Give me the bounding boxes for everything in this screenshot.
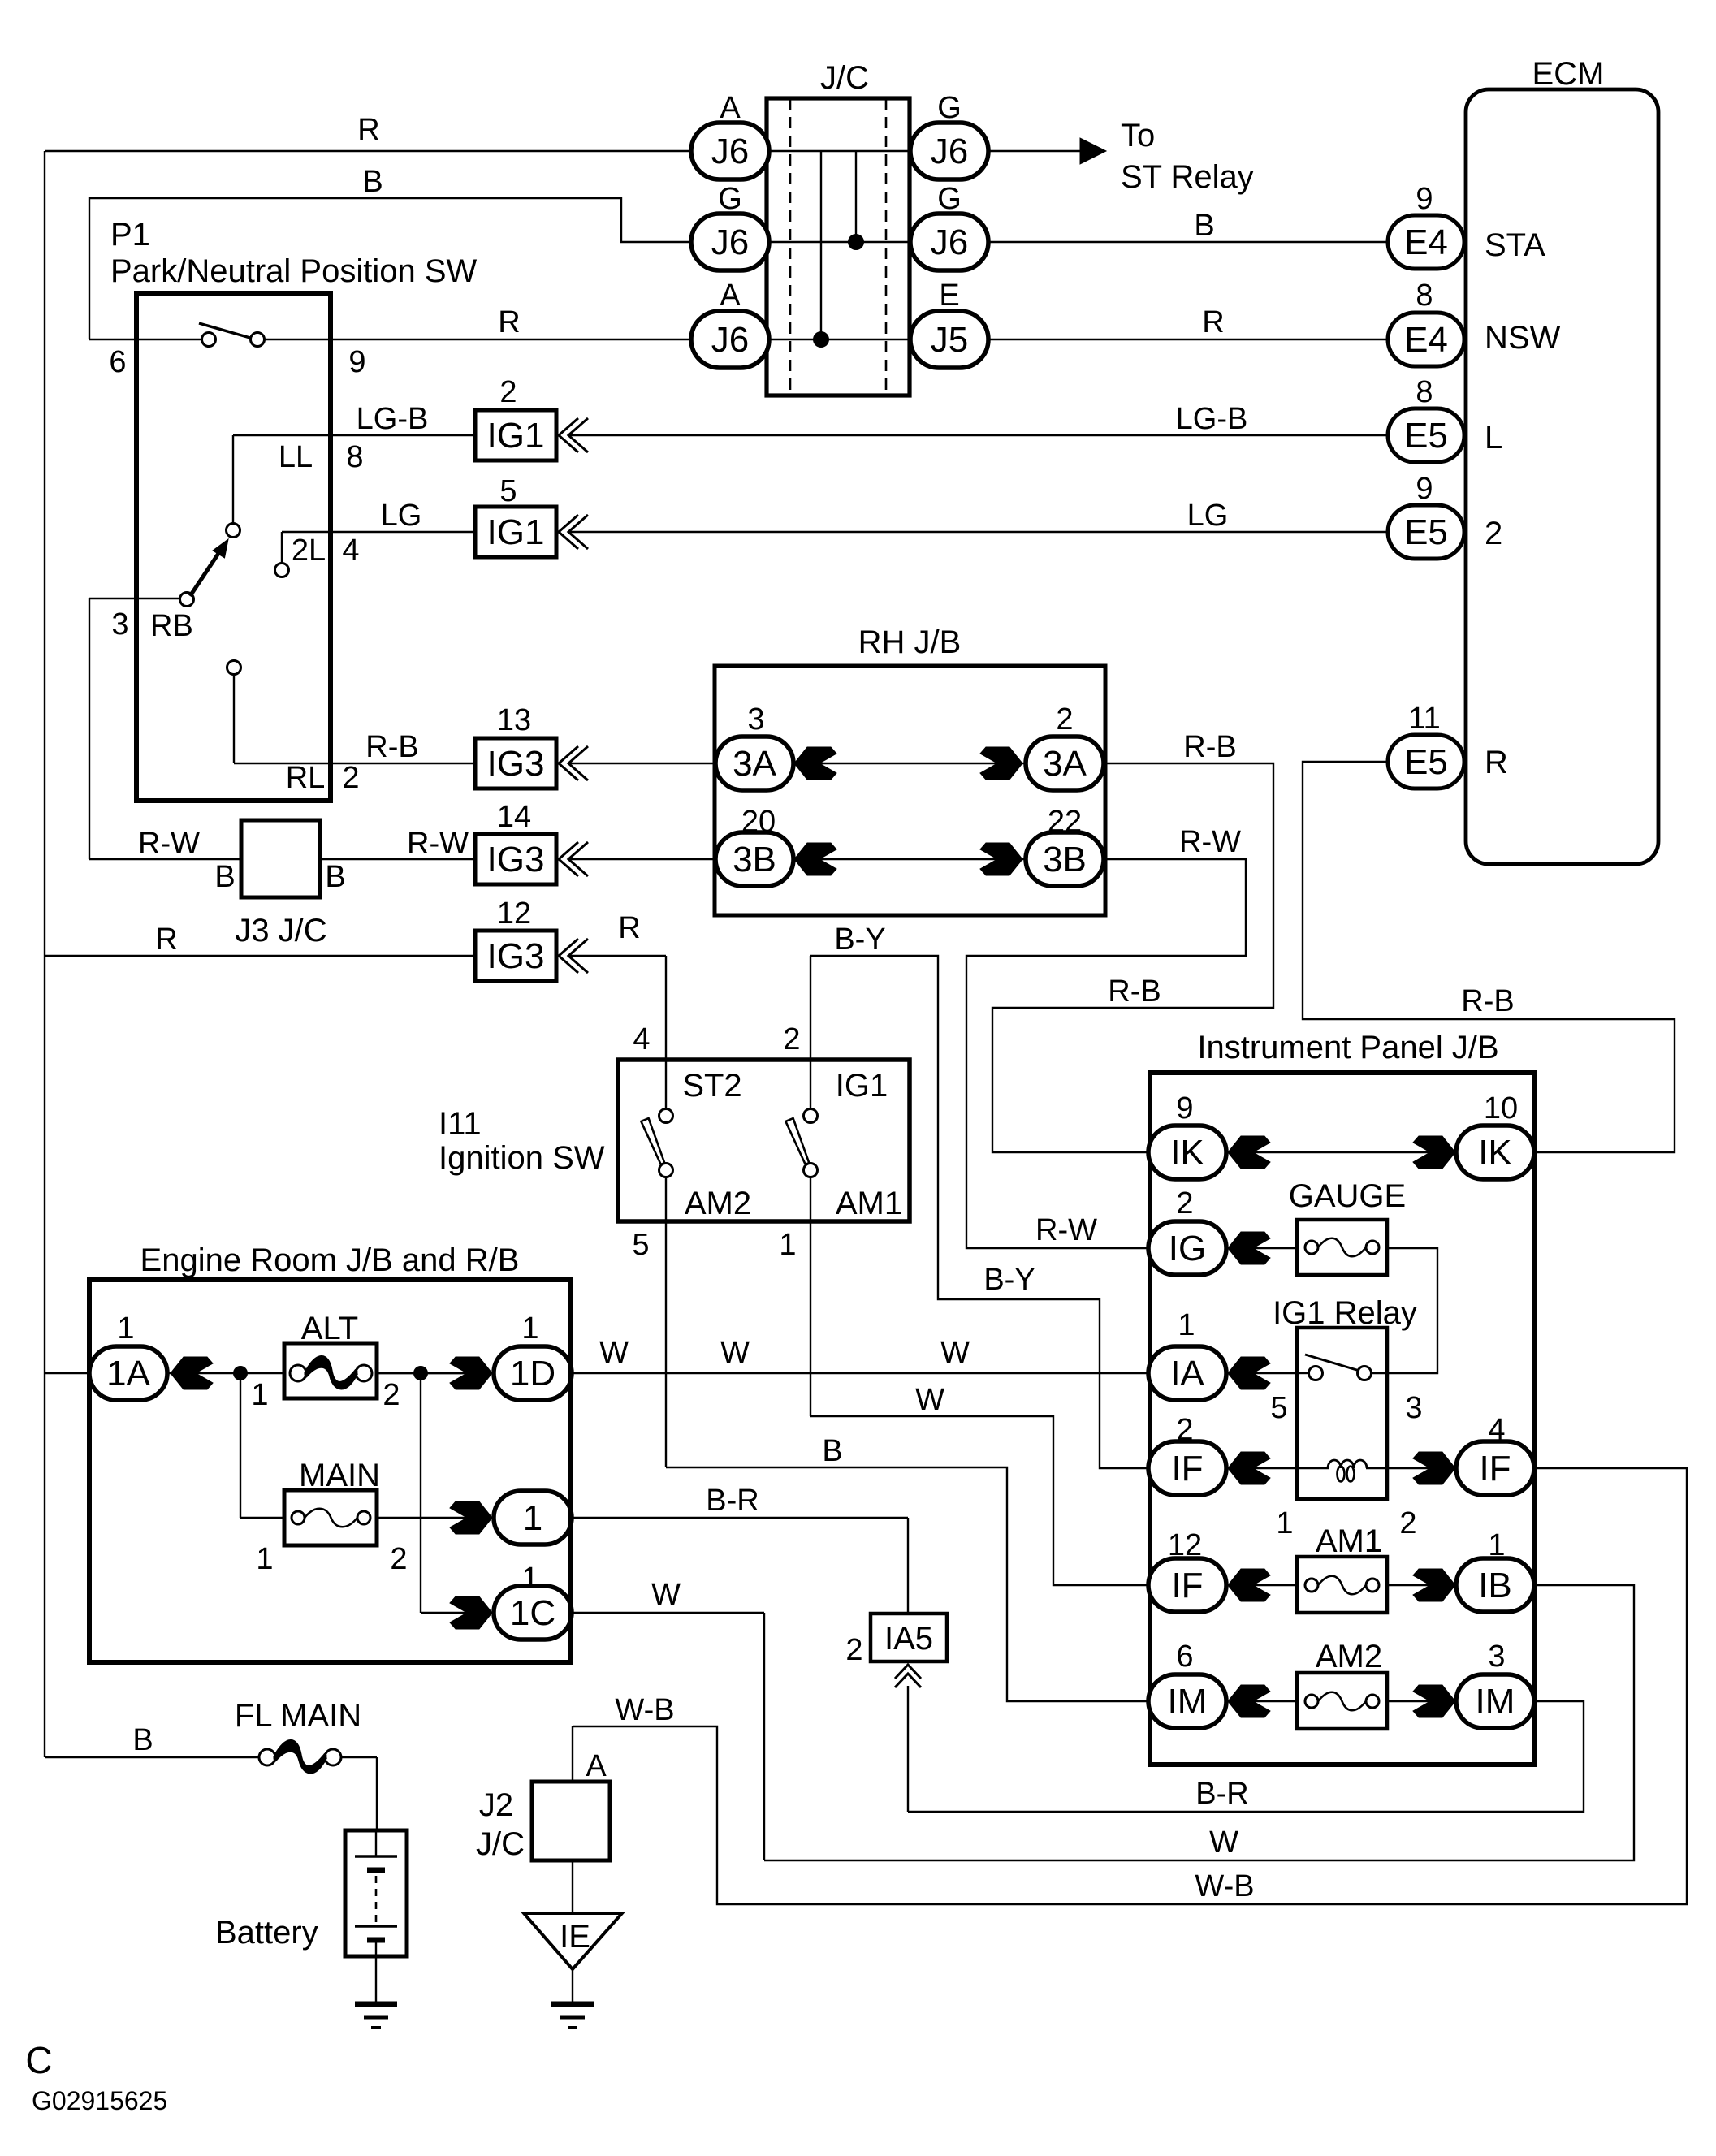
svg-text:2: 2 [390,1542,407,1576]
svg-text:12: 12 [1168,1528,1202,1562]
svg-text:5: 5 [632,1228,649,1262]
svg-text:6: 6 [109,345,126,379]
svg-text:W: W [651,1578,681,1612]
svg-text:J6: J6 [711,132,749,171]
svg-text:E5: E5 [1404,416,1448,456]
svg-text:1A: 1A [106,1354,150,1393]
svg-text:C: C [25,2039,52,2081]
svg-text:2: 2 [499,375,517,409]
svg-text:LG: LG [381,499,422,533]
svg-text:W: W [720,1336,750,1370]
svg-text:1C: 1C [510,1593,555,1633]
svg-text:LG: LG [1187,499,1229,533]
svg-text:1: 1 [521,1311,538,1346]
svg-text:I11: I11 [439,1106,482,1142]
svg-text:B: B [362,165,383,199]
svg-text:J2: J2 [479,1787,513,1823]
svg-text:AM1: AM1 [836,1186,902,1221]
svg-text:STA: STA [1485,227,1545,263]
svg-text:IF: IF [1171,1449,1203,1488]
svg-text:IG1: IG1 [487,512,545,552]
svg-text:IG3: IG3 [487,840,545,879]
svg-text:B: B [822,1434,842,1468]
svg-text:IA: IA [1170,1354,1204,1393]
svg-text:G: G [718,182,742,216]
svg-text:AM2: AM2 [1316,1639,1382,1674]
svg-text:IG1: IG1 [487,416,545,456]
svg-text:Engine Room J/B and R/B: Engine Room J/B and R/B [140,1242,520,1278]
svg-text:2: 2 [845,1633,862,1667]
svg-text:IK: IK [1478,1133,1512,1173]
svg-text:IG3: IG3 [487,744,545,784]
svg-text:Park/Neutral Position SW: Park/Neutral Position SW [110,253,478,289]
svg-text:RH J/B: RH J/B [858,624,962,660]
svg-text:LG-B: LG-B [357,402,429,436]
svg-text:1: 1 [521,1562,538,1596]
svg-text:5: 5 [1270,1391,1287,1425]
svg-text:1: 1 [1488,1528,1505,1562]
svg-text:1: 1 [117,1311,134,1346]
svg-text:B: B [132,1723,153,1757]
svg-text:IB: IB [1478,1566,1512,1605]
svg-text:3A: 3A [733,744,776,784]
svg-text:1: 1 [1178,1308,1195,1342]
svg-text:J6: J6 [931,132,968,171]
svg-text:2: 2 [1176,1413,1193,1447]
svg-text:Ignition SW: Ignition SW [439,1140,605,1176]
svg-text:RB: RB [150,609,193,643]
svg-text:IF: IF [1479,1449,1511,1488]
svg-text:3: 3 [1405,1391,1422,1425]
svg-text:NSW: NSW [1485,320,1561,356]
svg-text:1: 1 [1276,1506,1293,1540]
svg-text:2: 2 [1399,1506,1416,1540]
svg-text:E: E [939,279,959,313]
svg-text:3B: 3B [1043,840,1087,879]
svg-text:J6: J6 [931,223,968,262]
svg-text:IM: IM [1168,1682,1208,1722]
svg-text:9: 9 [1176,1091,1193,1126]
svg-text:A: A [586,1749,607,1783]
svg-text:1: 1 [779,1228,796,1262]
svg-text:R: R [357,113,379,147]
svg-text:A: A [720,91,741,125]
svg-text:13: 13 [497,703,531,737]
svg-text:LL: LL [279,440,313,474]
svg-text:W-B: W-B [1195,1869,1254,1903]
svg-text:3: 3 [111,607,128,642]
svg-text:20: 20 [741,805,776,839]
svg-text:12: 12 [497,897,531,931]
svg-text:R-B: R-B [365,730,418,764]
svg-text:W-B: W-B [615,1693,674,1727]
svg-text:W: W [1209,1825,1238,1860]
svg-text:AM2: AM2 [685,1186,751,1221]
svg-text:R-B: R-B [1183,730,1236,764]
svg-text:R: R [1202,305,1224,339]
svg-text:1D: 1D [510,1354,555,1393]
svg-text:Battery: Battery [215,1915,318,1951]
svg-text:B-Y: B-Y [983,1263,1035,1297]
svg-text:1: 1 [523,1498,542,1538]
svg-text:W: W [599,1336,629,1370]
svg-text:To: To [1121,118,1155,153]
svg-text:9: 9 [1416,182,1433,216]
svg-text:2L: 2L [292,534,326,568]
svg-text:8: 8 [1416,375,1433,409]
svg-text:IG3: IG3 [487,936,545,976]
svg-text:2: 2 [1176,1186,1193,1221]
svg-text:3A: 3A [1043,744,1087,784]
svg-text:IE: IE [560,1919,590,1955]
svg-text:3B: 3B [733,840,776,879]
svg-text:L: L [1485,420,1502,456]
svg-text:A: A [720,279,741,313]
svg-text:RL: RL [286,761,326,795]
svg-text:10: 10 [1484,1091,1518,1126]
svg-text:R-W: R-W [1035,1213,1097,1247]
svg-text:IA5: IA5 [884,1621,933,1657]
svg-text:2: 2 [342,761,359,795]
svg-text:G: G [937,182,962,216]
svg-text:IG1 Relay: IG1 Relay [1273,1295,1417,1331]
svg-text:IK: IK [1170,1133,1204,1173]
svg-text:J3 J/C: J3 J/C [235,913,326,948]
svg-text:R-B: R-B [1461,984,1514,1018]
svg-text:R-B: R-B [1108,974,1161,1009]
svg-text:J6: J6 [711,223,749,262]
svg-text:IM: IM [1476,1682,1515,1722]
svg-text:1: 1 [251,1378,268,1412]
svg-text:ST2: ST2 [682,1068,741,1104]
svg-text:11: 11 [1408,702,1440,736]
svg-text:ECM: ECM [1532,56,1605,92]
svg-text:9: 9 [1416,472,1433,506]
svg-text:R: R [1485,745,1508,780]
svg-text:8: 8 [346,440,363,474]
svg-text:J5: J5 [931,320,968,360]
svg-text:2: 2 [383,1378,400,1412]
svg-text:W: W [915,1383,944,1417]
svg-text:B-R: B-R [706,1484,759,1518]
svg-text:B: B [1194,209,1214,243]
svg-text:G02915625: G02915625 [32,2086,167,2115]
svg-text:ALT: ALT [301,1311,358,1346]
svg-text:E5: E5 [1404,512,1448,552]
svg-text:2: 2 [783,1022,800,1056]
svg-text:J6: J6 [711,320,749,360]
svg-text:W: W [940,1336,970,1370]
svg-text:E5: E5 [1404,742,1448,782]
svg-text:4: 4 [633,1022,650,1056]
svg-text:AM1: AM1 [1316,1523,1382,1559]
svg-text:IG1: IG1 [836,1068,888,1104]
svg-text:ST Relay: ST Relay [1121,159,1254,195]
svg-text:Instrument Panel J/B: Instrument Panel J/B [1197,1030,1498,1065]
svg-text:R: R [155,922,177,957]
svg-text:9: 9 [348,345,365,379]
svg-text:B: B [325,860,345,894]
svg-text:14: 14 [497,800,531,834]
svg-text:4: 4 [1488,1413,1505,1447]
svg-text:4: 4 [342,534,359,568]
svg-text:E4: E4 [1404,223,1448,262]
svg-text:J/C: J/C [820,60,869,96]
svg-text:22: 22 [1048,805,1082,839]
svg-text:3: 3 [1488,1640,1505,1674]
svg-text:3: 3 [747,702,764,737]
svg-text:R-W: R-W [1179,825,1241,859]
svg-text:G: G [937,91,962,125]
svg-text:LG-B: LG-B [1176,402,1248,436]
svg-text:1: 1 [256,1542,273,1576]
svg-text:B-Y: B-Y [834,922,885,957]
svg-text:5: 5 [499,474,517,508]
svg-text:R: R [498,305,520,339]
svg-text:IG: IG [1169,1229,1206,1268]
svg-text:R-W: R-W [138,827,200,861]
svg-text:J/C: J/C [476,1826,525,1862]
svg-text:2: 2 [1485,516,1502,551]
svg-text:R-W: R-W [407,827,469,861]
svg-text:E4: E4 [1404,320,1448,360]
svg-text:R: R [618,911,640,945]
svg-text:B-R: B-R [1195,1777,1248,1811]
svg-text:6: 6 [1176,1640,1193,1674]
svg-text:IF: IF [1171,1566,1203,1605]
svg-text:B: B [214,860,235,894]
svg-text:GAUGE: GAUGE [1289,1178,1406,1214]
svg-text:FL MAIN: FL MAIN [235,1698,361,1734]
svg-text:P1: P1 [110,217,150,253]
svg-text:MAIN: MAIN [299,1458,380,1493]
svg-text:2: 2 [1056,702,1073,737]
svg-text:8: 8 [1416,279,1433,313]
